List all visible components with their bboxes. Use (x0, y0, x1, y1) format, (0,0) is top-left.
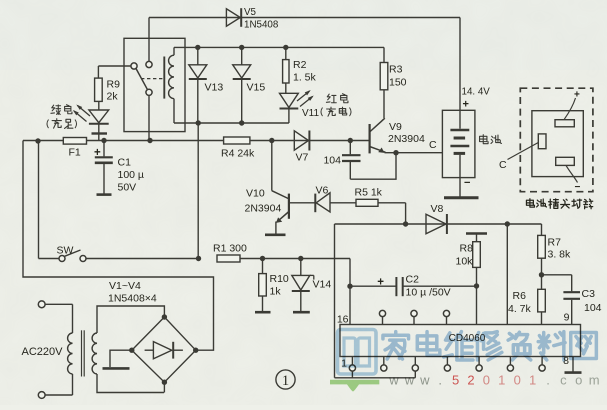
battery plug body (532, 111, 583, 177)
node junction R2 top (283, 45, 288, 50)
node junction V13 top (195, 45, 200, 50)
IC U1 bottom pin stub terminal 5 (476, 357, 482, 372)
svg-text:10 µ /50V: 10 µ /50V (406, 287, 451, 299)
watermark green book banner (330, 380, 379, 392)
label green LED 绿色 (51, 105, 72, 115)
diode V13 (189, 47, 207, 123)
resistor R5 (330, 199, 406, 206)
bridge internal diode symbol (145, 342, 183, 359)
battery plug + contact (555, 120, 574, 127)
node junction SW rail / V13 drop (196, 256, 201, 261)
diode V15 (233, 47, 251, 123)
resistor R10 (259, 259, 267, 312)
IC U1 bottom pin stub terminal 3 (412, 357, 418, 372)
capacitor 104 (V9 base-emitter) (342, 141, 361, 180)
resistor R9 (95, 66, 103, 101)
bridge rectifier V1-V4 diamond (132, 317, 196, 382)
zener diode V14 (292, 259, 314, 312)
wire R5 to V8 rail (405, 203, 407, 224)
IC U1 bottom pin stub terminal 7 (539, 357, 545, 372)
resistor R7 (538, 224, 546, 275)
svg-text:o: o (575, 373, 582, 388)
ground bar C1 (97, 193, 112, 196)
battery plug - contact (556, 157, 575, 165)
IC U1 bottom pin stub terminal 2 (381, 357, 387, 372)
svg-text:R10: R10 (270, 273, 289, 285)
relay contact common (left) (98, 63, 137, 69)
wire secondary top to bridge AC1 (97, 306, 164, 333)
node junction SW riser (35, 138, 40, 143)
ground bar V14 (293, 311, 310, 314)
transistor V10 (276, 194, 289, 234)
svg-text:C3: C3 (582, 288, 596, 300)
svg-text:SW: SW (57, 245, 74, 257)
node junction V15 top (239, 45, 244, 50)
transistor V9 (370, 118, 396, 153)
svg-text:3. 8k: 3. 8k (548, 249, 572, 261)
wire left outer rail (bridge + feed) (23, 141, 214, 351)
svg-text:104: 104 (584, 302, 602, 314)
svg-text:1N5408×4: 1N5408×4 (108, 293, 157, 305)
resistor R6 (538, 275, 546, 325)
svg-text:R8: R8 (460, 243, 474, 255)
svg-text:0: 0 (483, 373, 490, 388)
diode V7 (294, 131, 309, 151)
node bridge right vertex (193, 348, 198, 353)
watermark url www.520101.com (388, 373, 599, 388)
label (充足) (47, 119, 77, 129)
battery GB 14.4V (442, 110, 475, 177)
svg-text:+: + (574, 90, 580, 101)
svg-text:V1~V4: V1~V4 (109, 280, 141, 292)
relay contact NC (bottom) (146, 89, 152, 140)
svg-text:V10: V10 (246, 188, 265, 200)
wire bridge bottom vertex drop (163, 382, 165, 392)
switch SW (39, 250, 199, 262)
wire main positive rail (23, 140, 369, 142)
svg-text:w: w (404, 373, 415, 388)
resistor R8 with top bar (466, 234, 487, 287)
svg-text:R9: R9 (107, 78, 121, 90)
LED V12 emission arrows (73, 104, 90, 121)
svg-text:R2: R2 (293, 59, 307, 71)
svg-text:C: C (429, 139, 437, 151)
capacitor C3 104 (542, 275, 581, 325)
wire R8/C2 node drop to IC (476, 286, 478, 325)
node junction R5 drop (403, 221, 408, 226)
node junction V15 bottom (239, 120, 244, 125)
svg-text:V7: V7 (296, 152, 309, 164)
LED V11 emission arrows (297, 90, 314, 107)
battery plug + lead curve (564, 98, 576, 120)
watermark text 家电维修资料网 (383, 332, 596, 360)
ground bar R10 (255, 311, 271, 314)
svg-text:C: C (499, 159, 507, 171)
wire V13-rail drop to SW rail (197, 123, 199, 259)
transformer T core (82, 330, 85, 376)
wire secondary bottom to bridge AC2 (97, 374, 164, 393)
relay switch arm (136, 69, 147, 90)
relay contact NO (top middle) (146, 61, 152, 67)
svg-text:2: 2 (467, 373, 474, 388)
diode V5 (226, 8, 241, 27)
node junction V14 (298, 256, 303, 261)
node bridge top vertex (162, 314, 167, 319)
svg-text:1. 5k: 1. 5k (293, 72, 317, 84)
svg-text:2k: 2k (107, 90, 119, 102)
svg-text:R7: R7 (548, 237, 562, 249)
svg-text:2N3904: 2N3904 (245, 203, 282, 215)
svg-text:AC220V: AC220V (22, 346, 64, 358)
wire pin8 to ground (572, 357, 574, 372)
label circled 1 figure number (276, 370, 295, 389)
wire SW riser to main rail (38, 141, 40, 259)
svg-text:.: . (546, 373, 550, 388)
wire pin1 ground rail (335, 371, 416, 378)
svg-text:V15: V15 (247, 82, 266, 94)
svg-text:150: 150 (389, 76, 407, 88)
svg-text:V13: V13 (205, 82, 224, 94)
wire V8 rail (335, 224, 542, 378)
svg-text:−: − (464, 177, 470, 189)
resistor R2 (283, 47, 289, 93)
svg-text:1: 1 (282, 373, 289, 389)
relay coil winding (169, 55, 174, 98)
battery plug dashed outline (520, 88, 593, 192)
capacitor C2 10u/50V (350, 277, 477, 296)
svg-text:1: 1 (529, 373, 536, 388)
svg-text:0: 0 (514, 373, 521, 388)
svg-text:c: c (560, 373, 567, 388)
resistor R4 (224, 137, 250, 144)
wire bridge left vertex to ground (110, 350, 132, 367)
svg-text:m: m (589, 373, 600, 388)
wire relay coil top to V13 rail (174, 47, 384, 55)
wire V8 junction drop to IC (506, 224, 508, 325)
wire relay coil bottom to V13 bottom rail (174, 99, 289, 123)
node junction relay contact drop (147, 138, 152, 143)
node junction R10 (260, 256, 265, 261)
battery plug C contact (538, 134, 546, 149)
capacitor C1 100u/50V (95, 141, 113, 194)
node junction V13 bottom (196, 120, 201, 125)
svg-text:C2: C2 (406, 274, 420, 286)
wire R1 rail to C2 drop (240, 258, 350, 260)
label V11 (充电) (302, 107, 351, 119)
svg-text:104: 104 (323, 155, 341, 167)
svg-text:V11: V11 (302, 108, 319, 119)
svg-text:9: 9 (564, 312, 570, 324)
svg-text:V8: V8 (431, 203, 444, 215)
transformer T primary winding (45, 304, 72, 395)
wire R1 rail drop to C2 (349, 259, 351, 287)
svg-text:.: . (438, 373, 442, 388)
diode V6 (315, 193, 330, 212)
node junction V10 collector tap (269, 138, 274, 143)
IC U1 top pin stub terminal 2 (411, 310, 417, 324)
diode V8 (426, 214, 447, 234)
node junction R7/R6/C3 (539, 272, 544, 277)
svg-text:C1: C1 (118, 157, 132, 169)
wire V9 emitter to battery C (396, 152, 442, 154)
wire top rail to battery + (149, 18, 460, 111)
svg-text:V5: V5 (244, 7, 257, 18)
transformer T secondary winding (92, 333, 97, 374)
battery plug - lead curve (566, 165, 578, 182)
svg-text:V6: V6 (316, 184, 329, 196)
svg-text:+: + (463, 99, 469, 111)
wire V9 emitter feedback loop (350, 153, 396, 180)
battery negative terminal bar (444, 196, 479, 199)
IC U1 top pin stub terminal 3 (443, 310, 449, 324)
relay coil core (163, 57, 165, 99)
svg-text:−: − (575, 182, 581, 193)
svg-text:1k: 1k (270, 286, 282, 298)
IC U1 top pin stub terminal 1 (379, 310, 385, 324)
ground bar pin8 (565, 371, 582, 374)
svg-text:1N5408: 1N5408 (244, 20, 279, 31)
IC U1 bottom pin stub terminal 4 (444, 357, 450, 372)
svg-text:16: 16 (337, 314, 349, 326)
svg-text:100 µ: 100 µ (118, 169, 145, 181)
wire V10 base to V6 (289, 202, 315, 204)
IC U1 bottom pin stub terminal 1 (349, 357, 355, 372)
node junction C2 right / R8 (474, 283, 479, 288)
svg-text:w: w (419, 373, 430, 388)
svg-text:5: 5 (452, 373, 459, 388)
svg-text:R6: R6 (513, 290, 527, 302)
node junction V9 base rail (348, 138, 353, 143)
svg-text:4. 7k: 4. 7k (508, 303, 532, 315)
node junction V8 cathode rail (505, 221, 510, 226)
label red LED 红色 (326, 94, 348, 103)
svg-text:50V: 50V (118, 182, 137, 194)
svg-text:1: 1 (498, 373, 505, 388)
svg-text:V14: V14 (313, 279, 332, 291)
LED V12 green (charge-full indicator) (89, 101, 109, 140)
LED V11 red (charging indicator) (280, 93, 299, 123)
node junction V9 emitter (393, 150, 398, 155)
label 电池插头功能 caption (526, 199, 592, 209)
resistor R1 (217, 255, 240, 262)
IC U1 bottom pin stub terminal 6 (507, 357, 513, 372)
svg-text:R3: R3 (389, 63, 403, 75)
svg-text:V9: V9 (389, 121, 402, 133)
svg-text:+: + (377, 277, 384, 289)
svg-text:w: w (388, 373, 399, 388)
svg-text:R1 300: R1 300 (213, 243, 247, 255)
transformer T primary terminals (38, 301, 45, 399)
ground bar V10 emitter (265, 234, 286, 237)
node junction C2 left (347, 284, 352, 289)
node bridge left vertex (129, 348, 134, 353)
fuse F1 (63, 138, 86, 145)
IC U1 CD4060 body (340, 325, 581, 357)
resistor R3 (380, 47, 388, 118)
svg-text:10k: 10k (456, 256, 474, 268)
svg-text:F1: F1 (69, 147, 81, 159)
relay actuation dashed link (141, 78, 163, 80)
wire battery minus to terminal bar (459, 178, 461, 197)
label plug C with pointer (499, 143, 538, 172)
wire pin16 riser (349, 286, 351, 324)
svg-text:R5 1k: R5 1k (355, 187, 383, 199)
svg-text:R4 24k: R4 24k (221, 148, 255, 160)
node junction C1 (101, 138, 106, 143)
relay K1 box (124, 38, 185, 131)
ground bar bridge (103, 367, 130, 370)
watermark logo blue book square (338, 330, 377, 375)
label 电池 (battery) (480, 135, 502, 144)
wire V10 collector riser (272, 141, 288, 199)
svg-text:+: + (94, 147, 101, 159)
svg-text:14. 4V: 14. 4V (462, 87, 491, 98)
svg-text:2N3904: 2N3904 (388, 133, 425, 145)
node bridge bottom vertex (162, 380, 167, 385)
